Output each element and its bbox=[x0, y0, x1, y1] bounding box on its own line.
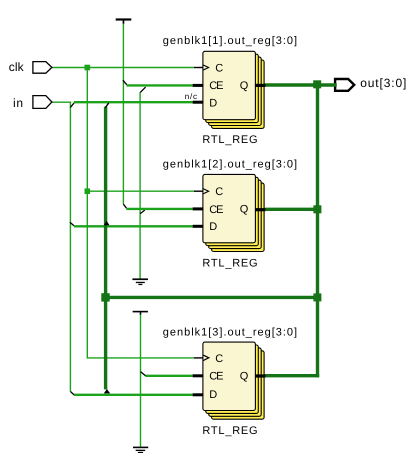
register U3 genblk1[3].out_reg stack bbox=[203, 342, 264, 419]
svg-text:Q: Q bbox=[240, 80, 249, 92]
wire net D1 bus horizontal bbox=[74, 101, 193, 103]
pin stub Q2 bbox=[255, 208, 265, 211]
input port clk bbox=[33, 62, 52, 74]
svg-text:RTL_REG: RTL_REG bbox=[202, 134, 257, 146]
svg-text:genblk1[3].out_reg[3:0]: genblk1[3].out_reg[3:0] bbox=[163, 326, 297, 338]
svg-text:CE: CE bbox=[209, 371, 223, 383]
clock pin arrow C2 bbox=[203, 189, 208, 194]
wire diagonal V1 to D1 bus bbox=[70, 103, 74, 108]
svg-text:D: D bbox=[209, 97, 217, 109]
svg-text:C: C bbox=[215, 186, 223, 198]
wire net CE3 horizontal bbox=[146, 375, 193, 377]
junction V3 with long bus bbox=[101, 293, 109, 301]
register U1 genblk1[1].out_reg stack bbox=[203, 51, 264, 128]
pin stub CE3 bbox=[193, 374, 204, 377]
wire net V6 vertical const1 to bottom ground bbox=[140, 315, 142, 447]
wire net in vertical V1 bbox=[69, 102, 71, 392]
wire net long bus horizontal bbox=[106, 296, 318, 299]
junction clk net at V2 top bbox=[85, 65, 91, 71]
pin stub CE2 bbox=[193, 207, 204, 210]
input port in bbox=[33, 96, 52, 109]
svg-text:C: C bbox=[215, 353, 223, 365]
svg-text:out[3:0]: out[3:0] bbox=[360, 76, 406, 90]
wire net clk horizontal to C1 bbox=[52, 67, 194, 69]
wire diagonal V1 to D3 bbox=[70, 392, 74, 396]
pin stub C2 thin bbox=[194, 190, 203, 192]
wire net CE2 horizontal bbox=[126, 208, 192, 210]
power symbol P2 (const1) lower bbox=[133, 311, 148, 315]
pin stub Q1 bbox=[255, 84, 265, 87]
wire diagonal V3 to D1 bus bbox=[105, 103, 109, 108]
wire net V5 vertical to mid ground bbox=[139, 92, 141, 278]
svg-text:Q: Q bbox=[240, 370, 249, 382]
ground symbol G2 (const0) bottom bbox=[133, 447, 148, 453]
wire diagonal V4 to CE1 bbox=[123, 80, 127, 85]
output port out[3:0] bbox=[335, 79, 354, 91]
junction clk net at C2 bbox=[85, 188, 91, 194]
wire net Q1 to out port bbox=[265, 83, 337, 86]
junction Q2/out bus bbox=[313, 205, 321, 213]
wire net CE1 horizontal bbox=[127, 84, 193, 86]
wire diagonal CE2 to V5 bbox=[140, 210, 145, 214]
wire net clk horizontal to C3 bbox=[87, 357, 194, 359]
wire net Q2 horizontal bbox=[265, 208, 318, 211]
junction long bus/out bus bbox=[313, 293, 321, 301]
pin stub CE1 bbox=[193, 84, 204, 87]
svg-text:D: D bbox=[209, 221, 217, 233]
svg-text:RTL_REG: RTL_REG bbox=[202, 257, 257, 269]
register U2 genblk1[2].out_reg stack bbox=[203, 174, 264, 251]
clock pin arrow C3 bbox=[203, 355, 208, 360]
wire net D2 horizontal bbox=[74, 225, 193, 227]
svg-text:CE: CE bbox=[209, 80, 223, 92]
svg-text:RTL_REG: RTL_REG bbox=[202, 425, 257, 437]
pin stub D1 bbox=[193, 101, 204, 104]
wire net clk vertical V2 bbox=[86, 68, 88, 358]
svg-text:Q: Q bbox=[240, 204, 249, 216]
wire net const1-top vertical V4 bbox=[122, 24, 124, 205]
wire diagonal V4 end to CE2 bbox=[123, 204, 126, 208]
wire net D3 horizontal bbox=[74, 394, 193, 396]
pin stub C1 thin bbox=[194, 67, 203, 69]
svg-text:D: D bbox=[209, 389, 217, 401]
ground symbol G1 (const0) middle bbox=[132, 278, 148, 285]
wire diagonal V6 to CE3 bbox=[141, 372, 146, 376]
wire net Q3 horizontal bbox=[265, 374, 319, 377]
wire net out vertical bus bbox=[316, 85, 319, 377]
junction Q1/out bus bbox=[313, 80, 321, 88]
svg-text:n/c: n/c bbox=[185, 92, 197, 101]
clock pin arrow C1 bbox=[203, 65, 208, 70]
svg-text:genblk1[1].out_reg[3:0]: genblk1[1].out_reg[3:0] bbox=[163, 35, 297, 47]
power symbol P1 (const1) top bbox=[116, 18, 132, 23]
wire net in thin segment from port bbox=[52, 101, 71, 103]
pin stub D2 bbox=[193, 225, 204, 228]
join marker triangle V3 into D3 bbox=[104, 389, 110, 393]
svg-text:in: in bbox=[13, 96, 23, 110]
wire diagonal V1 to D2 bbox=[70, 222, 74, 225]
wire net D-bus vertical V3 (thick) bbox=[104, 107, 107, 390]
wire diagonal CE1 to V5 bbox=[140, 87, 146, 93]
wire net clk horizontal to C2 bbox=[87, 190, 194, 192]
pin stub D3 bbox=[193, 393, 204, 396]
svg-text:genblk1[2].out_reg[3:0]: genblk1[2].out_reg[3:0] bbox=[163, 159, 297, 171]
svg-text:clk: clk bbox=[9, 60, 25, 74]
pin stub C3 thin bbox=[194, 357, 203, 359]
svg-text:CE: CE bbox=[209, 204, 223, 216]
hop marker triangle V3 over D2 bbox=[104, 221, 110, 226]
svg-text:C: C bbox=[215, 63, 223, 75]
pin stub Q3 bbox=[255, 374, 265, 377]
